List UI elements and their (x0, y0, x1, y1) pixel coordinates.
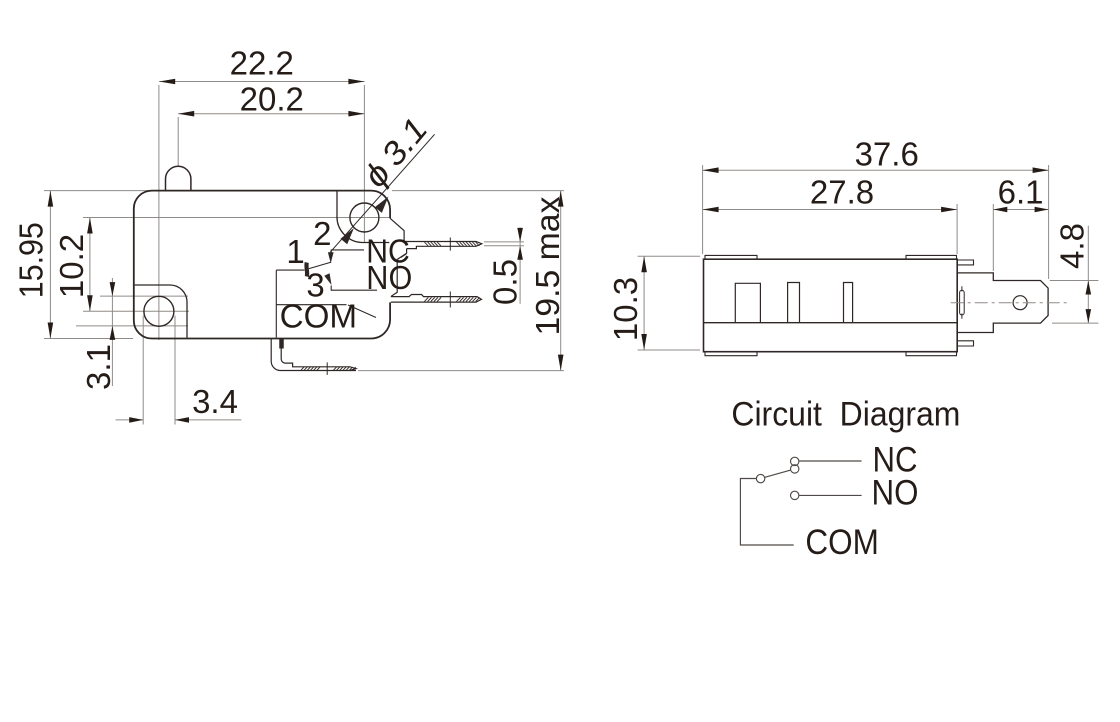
NC terminal blade (404, 242, 482, 249)
svg-text:4.8: 4.8 (1054, 223, 1091, 269)
dia 3.1 leader line (330, 134, 434, 252)
slot notch 1 (735, 283, 760, 322)
top-right lip tab (906, 255, 957, 259)
dim 3.4 line + outside arrows (116, 419, 144, 421)
wire: hole bottom tangent ext (3.1) (76, 325, 188, 327)
dim 10.2 line (89, 218, 91, 312)
svg-text:0.5: 0.5 (486, 259, 523, 305)
dim 4.8 line (1087, 226, 1089, 323)
svg-text:10.3: 10.3 (607, 277, 644, 341)
svg-text:1: 1 (286, 233, 304, 270)
NC blade tick (449, 238, 451, 251)
internal COM leader to bent terminal (348, 305, 376, 318)
mounting hole bottom-left (144, 296, 174, 326)
centerline dash-dot (951, 302, 1070, 304)
wire: ext 27.8 right (956, 204, 958, 254)
junction oval detail (960, 290, 965, 315)
right small tab bottom (957, 341, 973, 346)
wire: crosshair right hole horizontal (337, 217, 390, 219)
right view body (704, 259, 958, 352)
right small tab top (957, 260, 973, 265)
wire: extension line 15.95 top (44, 190, 152, 192)
NC blade hatching (424, 242, 479, 246)
svg-text:ϕ 3.1: ϕ 3.1 (356, 110, 434, 194)
dim 19.5 max line (560, 191, 562, 371)
movable contact thick mark (304, 263, 309, 277)
svg-text:COM: COM (280, 298, 358, 335)
NO terminal blade (391, 295, 482, 303)
top-left lip tab (705, 255, 757, 259)
wire: NO lead (799, 494, 861, 496)
NO internal contact line (331, 286, 377, 291)
wire: vertical centerline right hole / ext right (363, 85, 365, 243)
pocket around top-right hole (337, 191, 389, 243)
wire: ext 3.4 right (174, 316, 176, 425)
slot notch 2 (788, 283, 800, 323)
wire: ext 10.3 top (638, 255, 700, 257)
NO blade tick (449, 292, 451, 308)
svg-text:37.6: 37.6 (855, 136, 919, 173)
node NO contact circle (791, 491, 799, 499)
wire: extension line hole bottom-left centerline horizontal (83, 310, 189, 312)
svg-text:19.5 max: 19.5 max (529, 196, 566, 336)
wire: vertical centerline left hole / ext 22.2 (158, 85, 160, 340)
wire: ext 37.6 left (702, 165, 704, 254)
COM anchor thick mark (279, 339, 284, 349)
wire: movable arm (765, 470, 791, 477)
svg-text:27.8: 27.8 (810, 174, 874, 211)
svg-text:22.2: 22.2 (230, 44, 294, 81)
svg-text:NO: NO (872, 474, 919, 513)
slot notch 3 (844, 283, 853, 323)
wire: ext 19.5 bottom (358, 370, 564, 372)
COM terminal bent down (271, 339, 356, 371)
svg-text:20.2: 20.2 (240, 81, 304, 118)
wire: hole top tangent ext (3.1) (100, 295, 188, 297)
dim 20.2 line (178, 113, 364, 115)
label 2 pointer arrow (328, 252, 334, 263)
wire: ext 10.3 bottom (638, 349, 700, 351)
node NC contact circle (791, 457, 799, 465)
bottom-right lip tab (906, 352, 957, 356)
wire: ext 6.1 left (992, 204, 994, 271)
svg-text:2: 2 (313, 215, 331, 252)
svg-text:15.95: 15.95 (13, 222, 50, 298)
dim 37.6 line (703, 169, 1049, 171)
node movable tip circle (791, 465, 799, 473)
dim 22.2 line (159, 81, 364, 83)
dim 0.5 line + outside arrows (519, 227, 521, 303)
wire: ext 3.4 left (142, 316, 144, 425)
svg-text:COM: COM (805, 523, 879, 562)
label 3 pointer arrow (324, 273, 331, 285)
wire: vertical ext 20.2 plunger center (177, 117, 179, 166)
wire: ext 19.5 top (392, 190, 564, 192)
dim 27.8 line (703, 209, 958, 211)
COM blade hatching (301, 367, 356, 370)
COM blade tick (326, 362, 328, 375)
wire: NC lead (799, 460, 861, 462)
dia 3.1 arrowhead upper (points to circle top-right edge) (375, 197, 389, 213)
node pivot circle (756, 474, 764, 482)
wire: COM lead (740, 479, 793, 546)
switch body outline (134, 191, 390, 339)
dim 15.95 line (49, 191, 51, 339)
dim 10.3 line (643, 256, 645, 350)
internal COM conductor (276, 270, 346, 337)
svg-text:NO: NO (366, 259, 412, 296)
movable arm (309, 262, 331, 269)
NC terminal root steps on right side (390, 218, 407, 296)
dia 3.1 arrowhead lower (points to circle bottom-left edge) (341, 228, 354, 244)
dim 6.1 line (993, 209, 1048, 211)
mounting hole top-right (350, 203, 379, 232)
wire: ext 37.6/6.1 right (1048, 165, 1050, 279)
dim 3.1 line + outside arrows (111, 278, 113, 386)
wire: extension line 10.2 top (to hole center line) (83, 217, 337, 219)
pocket around bottom-left hole (135, 285, 187, 338)
svg-text:3.1: 3.1 (80, 344, 117, 390)
wire: ext 4.8 bottom (1052, 322, 1098, 324)
svg-text:3.4: 3.4 (192, 383, 238, 420)
internal parting line (704, 322, 958, 324)
wire: ext 4.8 top (1050, 280, 1099, 282)
NC internal contact line (331, 250, 406, 259)
wire: extension line 15.95 bottom (44, 338, 133, 340)
plunger button (166, 166, 191, 190)
svg-text:10.2: 10.2 (53, 234, 90, 298)
blade hole (1013, 296, 1027, 310)
wire: ext 0.5 bottom (484, 245, 524, 247)
svg-text:Circuit Diagram: Circuit Diagram (731, 395, 960, 433)
svg-text:6.1: 6.1 (998, 174, 1044, 211)
NO blade hatching (424, 298, 479, 302)
terminal neck and blade (957, 273, 1048, 333)
wire: ext 0.5 top (484, 241, 524, 243)
bottom-left lip tab (705, 352, 757, 356)
